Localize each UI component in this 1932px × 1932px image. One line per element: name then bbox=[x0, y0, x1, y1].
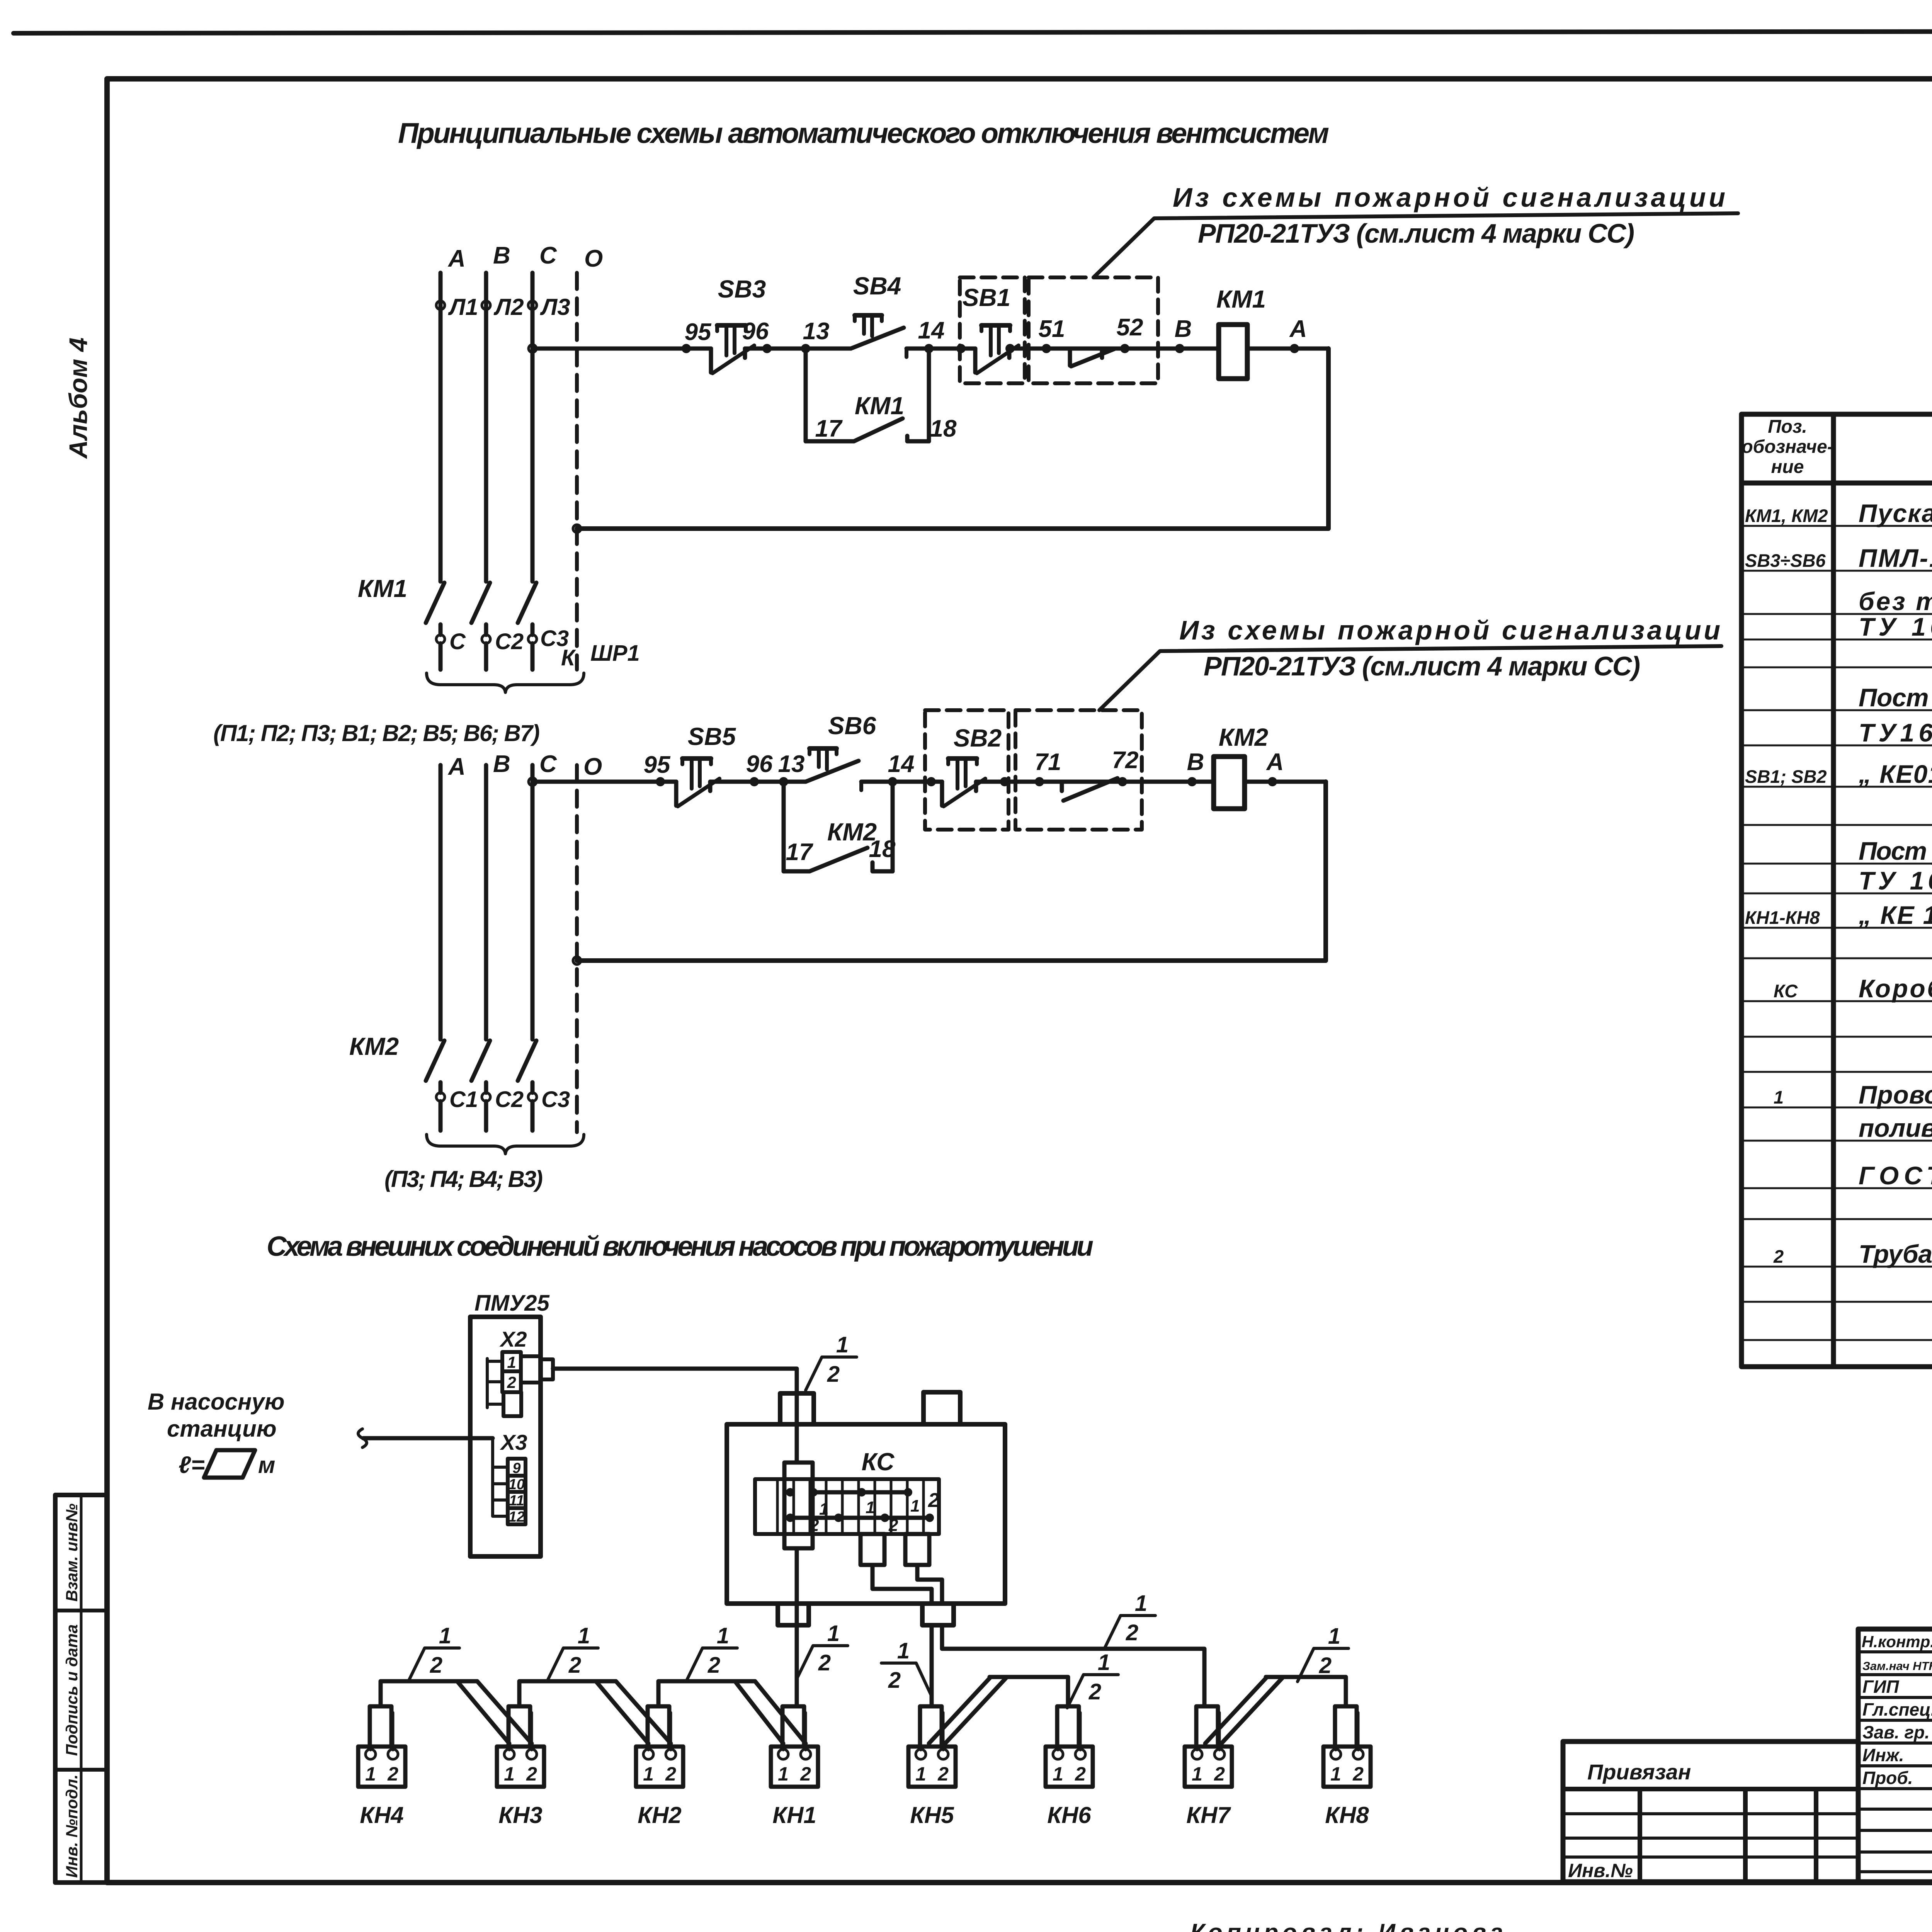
svg-text:КМ1, КМ2: КМ1, КМ2 bbox=[1745, 505, 1828, 526]
length placeholder parallelogram bbox=[204, 1450, 255, 1478]
node 13 bbox=[779, 777, 788, 786]
KM1 pole A bbox=[426, 583, 444, 635]
svg-text:ГИП: ГИП bbox=[1862, 1677, 1899, 1697]
svg-text:SB4: SB4 bbox=[853, 272, 901, 300]
node at SB2 right bbox=[1000, 777, 1009, 786]
svg-text:2: 2 bbox=[507, 1373, 516, 1391]
svg-text:Коробка соединительная КС-: Коробка соединительная КС-10 bbox=[1859, 974, 1932, 1003]
svg-text:„ КЕ011 “, „исп. 2 “, „ К “,: „ КЕ011 “, „исп. 2 “, „ К “, „ стоп “ bbox=[1858, 760, 1932, 788]
svg-text:РП20-21ТУЗ (см.лист 4 марки СС: РП20-21ТУЗ (см.лист 4 марки СС) bbox=[1198, 218, 1634, 248]
svg-text:2: 2 bbox=[665, 1763, 676, 1785]
svg-text:К: К bbox=[561, 645, 576, 670]
svg-text:КН1-КН8: КН1-КН8 bbox=[1745, 907, 1820, 928]
box PMU25 bbox=[470, 1317, 541, 1556]
junction box KC bbox=[727, 1424, 1005, 1604]
svg-text:Х2: Х2 bbox=[499, 1327, 527, 1351]
svg-text:2: 2 bbox=[888, 1668, 901, 1693]
cable mark 1/2 (to KH5, mirrored) bbox=[881, 1663, 932, 1696]
svg-text:1: 1 bbox=[778, 1763, 789, 1785]
terminal Л1 bbox=[436, 301, 445, 310]
svg-text:О: О bbox=[584, 245, 603, 272]
terminal C2 (KM2) bbox=[482, 1093, 490, 1101]
wire break squiggle bbox=[358, 1429, 367, 1447]
pushbutton post КН1 bbox=[771, 1706, 818, 1828]
X3 comb bbox=[493, 1438, 508, 1516]
KM1 holding contact branch wires bbox=[806, 349, 929, 441]
svg-text:17: 17 bbox=[815, 415, 843, 442]
node at SB2 left bbox=[927, 777, 936, 786]
svg-text:РП20-21ТУЗ (см.лист 4 марки СС: РП20-21ТУЗ (см.лист 4 марки СС) bbox=[1204, 651, 1640, 681]
svg-text:КН3: КН3 bbox=[498, 1802, 543, 1828]
contactor coil KM2 bbox=[1214, 757, 1245, 809]
svg-text:КМ1: КМ1 bbox=[358, 575, 407, 602]
KM1 auxiliary contact 17-18 bbox=[806, 418, 929, 441]
svg-text:SВ1; SВ2: SВ1; SВ2 bbox=[1745, 766, 1827, 787]
KM1 pole B bbox=[471, 583, 490, 635]
svg-text:В: В bbox=[1187, 749, 1204, 776]
KM2 holding contact branch wires bbox=[784, 782, 893, 871]
KC top gland left bbox=[780, 1393, 814, 1424]
leader note: from fire alarm circuit 2 bbox=[1099, 646, 1721, 710]
svg-text:2: 2 bbox=[800, 1763, 811, 1785]
cable run from box at 927 bbox=[381, 1681, 532, 1743]
svg-text:2: 2 bbox=[937, 1763, 949, 1785]
node 96 bbox=[750, 777, 759, 786]
svg-text:С: С bbox=[539, 751, 557, 777]
terminal C1 (KM2) bbox=[436, 1093, 445, 1101]
svg-text:2: 2 bbox=[888, 1516, 898, 1535]
svg-text:1: 1 bbox=[1330, 1763, 1341, 1785]
svg-text:Поз.: Поз. bbox=[1768, 417, 1807, 437]
svg-text:18: 18 bbox=[930, 415, 957, 442]
svg-text:13: 13 bbox=[803, 318, 830, 345]
wire to coil 2 bbox=[1142, 780, 1192, 784]
svg-text:КН6: КН6 bbox=[1047, 1802, 1091, 1828]
svg-text:без теплового реле: без теплового реле bbox=[1859, 587, 1932, 616]
sheet top edge line bbox=[14, 31, 1932, 33]
svg-text:2: 2 bbox=[1214, 1763, 1225, 1785]
cable run from box at 3066 bbox=[1205, 1677, 1346, 1743]
wire KC to KH7 bbox=[942, 1625, 1204, 1706]
strip bottom stub left bbox=[861, 1534, 884, 1565]
svg-text:Провод с алюминиевыми жилам: Провод с алюминиевыми жилами с bbox=[1859, 1080, 1932, 1109]
svg-text:1: 1 bbox=[910, 1497, 920, 1515]
terminal C3 (KM1) bbox=[528, 635, 537, 643]
cable mark 1/2 (PMU25-KC) bbox=[806, 1332, 857, 1390]
svg-text:2: 2 bbox=[928, 1489, 939, 1512]
phase bus C (circuit 1) bbox=[531, 273, 535, 349]
node 14 bbox=[888, 777, 897, 786]
svg-text:КН8: КН8 bbox=[1325, 1802, 1369, 1828]
cable mark 1/2 (KH5-KH6) bbox=[1067, 1650, 1118, 1708]
phase bus C (circuit 2) bbox=[531, 765, 535, 1039]
svg-text:С: С bbox=[449, 629, 466, 654]
svg-text:А: А bbox=[447, 245, 466, 272]
NC contact 51-52 bbox=[1046, 349, 1125, 366]
svg-text:1: 1 bbox=[1774, 1087, 1784, 1107]
neutral bus O dashed (circuit 2) bbox=[575, 765, 579, 1132]
junction at C bbox=[529, 778, 536, 786]
node A2 bbox=[1268, 777, 1277, 786]
svg-text:поливинилхлоридной изоляцией: поливинилхлоридной изоляцией bbox=[1859, 1114, 1932, 1142]
svg-text:Из схемы пожарной сигнализа: Из схемы пожарной сигнализации bbox=[1173, 182, 1725, 213]
svg-text:КМ2: КМ2 bbox=[349, 1032, 399, 1060]
svg-text:ПМЛ-112002 с катушкой на: ПМЛ-112002 с катушкой на 220В bbox=[1859, 544, 1932, 572]
cable run from box at 2351 bbox=[929, 1677, 1068, 1743]
svg-text:1: 1 bbox=[365, 1763, 376, 1785]
svg-text:С3: С3 bbox=[541, 1087, 570, 1112]
cable run from box at 1286 bbox=[519, 1681, 671, 1743]
brace group 2 bbox=[427, 1134, 584, 1154]
neutral bus O dashed (circuit 1) bbox=[575, 273, 579, 670]
X2 plug output bbox=[521, 1356, 541, 1383]
svg-text:Копировал: Иванова: Копировал: Иванова bbox=[1190, 1919, 1503, 1932]
wire PMU25 to KC bbox=[553, 1369, 797, 1463]
KC bottom gland right bbox=[922, 1604, 954, 1625]
svg-text:ТУ 16 - 526. 333 - 83: ТУ 16 - 526. 333 - 83 bbox=[1859, 866, 1932, 895]
node B2 bbox=[1187, 777, 1197, 786]
svg-text:Труба винипластовая ТЧ6-05-1: Труба винипластовая ТЧ6-05-1573-77 bbox=[1859, 1240, 1932, 1268]
svg-text:14: 14 bbox=[888, 751, 915, 777]
KM2 pole B bbox=[471, 1041, 490, 1093]
KM2 pole C bbox=[518, 1041, 536, 1093]
svg-text:В: В bbox=[493, 242, 510, 269]
svg-text:2: 2 bbox=[1075, 1763, 1086, 1785]
svg-text:13: 13 bbox=[778, 751, 805, 777]
svg-text:Л1: Л1 bbox=[448, 294, 478, 320]
junction on O bus bbox=[573, 525, 581, 532]
svg-text:SB2: SB2 bbox=[954, 724, 1002, 752]
node B1 bbox=[1175, 344, 1184, 353]
svg-text:ТУ 16-644. 001- 83: ТУ 16-644. 001- 83 bbox=[1859, 612, 1932, 641]
return wire circuit 1 bbox=[577, 349, 1328, 529]
svg-text:А: А bbox=[447, 753, 466, 780]
KC top gland right bbox=[923, 1392, 960, 1424]
svg-text:1: 1 bbox=[897, 1638, 910, 1663]
node 14 bbox=[924, 344, 934, 353]
svg-text:КС: КС bbox=[862, 1448, 895, 1476]
cable mark 1/2 (to KH1) bbox=[797, 1621, 848, 1679]
svg-text:Схема внешних соединений: Схема внешних соединений включения насос… bbox=[267, 1231, 1094, 1262]
phase bus A (circuit 1) bbox=[439, 273, 443, 582]
node A1 bbox=[1290, 344, 1299, 353]
svg-text:SВ3÷SВ6: SВ3÷SВ6 bbox=[1745, 550, 1826, 571]
junction at C bbox=[529, 345, 536, 352]
terminal C3 (KM2) bbox=[528, 1093, 537, 1101]
svg-text:Пост управления ПКУ 15-21.: Пост управления ПКУ 15-21. 111- 40У3 bbox=[1859, 837, 1932, 865]
KM1 pole C bbox=[518, 583, 536, 635]
node 72 bbox=[1118, 777, 1127, 786]
svg-text:95: 95 bbox=[644, 752, 671, 778]
svg-text:КН2: КН2 bbox=[638, 1802, 682, 1828]
svg-text:Пост управления ПКУ15-21.11: Пост управления ПКУ15-21.111-40У3 bbox=[1859, 683, 1932, 712]
terminal Л3 bbox=[528, 301, 537, 310]
svg-text:Инж.: Инж. bbox=[1862, 1745, 1904, 1765]
terminal C (KM1) bbox=[436, 635, 445, 643]
svg-text:17: 17 bbox=[786, 839, 813, 866]
svg-text:В: В bbox=[493, 751, 510, 777]
node 13 bbox=[801, 344, 810, 353]
contactor coil KM1 bbox=[1219, 325, 1247, 379]
cable mark 1/2 bbox=[408, 1623, 459, 1681]
phase bus A (circuit 2) bbox=[439, 765, 443, 1039]
svg-text:Пускатель электромагнитны: Пускатель электромагнитный bbox=[1859, 499, 1932, 527]
svg-text:71: 71 bbox=[1035, 749, 1061, 776]
dashed box SB2 bbox=[925, 710, 1009, 830]
strip bottom stub right bbox=[905, 1534, 929, 1565]
svg-text:Инв. №подл.: Инв. №подл. bbox=[63, 1774, 81, 1878]
svg-text:1: 1 bbox=[866, 1498, 875, 1517]
svg-text:(П1; П2; П3; В1; В2; В5; В6; В: (П1; П2; П3; В1; В2; В5; В6; В7) bbox=[213, 720, 540, 746]
pushbutton post КН3 bbox=[497, 1706, 544, 1828]
terminal C2 (KM1) bbox=[482, 635, 490, 643]
incoming cable connector in KC bbox=[784, 1463, 813, 1548]
KM2 auxiliary contact 17-18 bbox=[784, 848, 893, 871]
strip jumper row 2 bbox=[790, 1516, 930, 1520]
svg-text:м: м bbox=[258, 1452, 275, 1478]
X2 comb bbox=[487, 1359, 503, 1408]
KC bottom gland left bbox=[778, 1604, 809, 1625]
control rung 1 wire bbox=[532, 347, 1328, 351]
svg-text:95: 95 bbox=[685, 319, 712, 345]
wire to pump station bbox=[363, 1436, 493, 1440]
node 52 bbox=[1120, 344, 1129, 353]
svg-text:2: 2 bbox=[1773, 1246, 1784, 1267]
pushbutton post КН8 bbox=[1323, 1706, 1371, 1828]
dashed box from fire alarm bbox=[1029, 277, 1158, 383]
svg-text:С2: С2 bbox=[495, 1087, 524, 1112]
left margin stamp table bbox=[55, 1495, 107, 1883]
svg-text:2: 2 bbox=[526, 1763, 537, 1785]
node 95 bbox=[656, 777, 665, 786]
pushbutton SB1 (NC in fire-alarm box) bbox=[975, 325, 1019, 373]
pushbutton post КН4 bbox=[358, 1706, 405, 1828]
svg-text:Подпись и дата: Подпись и дата bbox=[63, 1624, 81, 1756]
svg-text:КН7: КН7 bbox=[1186, 1802, 1231, 1828]
pushbutton SB2 (NC in fire-alarm box) bbox=[942, 759, 985, 806]
dashed box from fire alarm 2 bbox=[1015, 710, 1142, 830]
svg-text:2: 2 bbox=[387, 1763, 398, 1785]
KM2 pole A bbox=[426, 1041, 444, 1093]
svg-text:Инв.№: Инв.№ bbox=[1568, 1860, 1633, 1881]
svg-text:96: 96 bbox=[746, 751, 773, 777]
svg-text:Проб.: Проб. bbox=[1862, 1768, 1913, 1788]
pushbutton post КН5 bbox=[908, 1706, 956, 1828]
svg-text:О: О bbox=[583, 753, 602, 780]
svg-text:станцию: станцию bbox=[167, 1416, 277, 1442]
svg-text:1: 1 bbox=[643, 1763, 654, 1785]
wire KC to KH5 bbox=[930, 1625, 934, 1706]
junction on O bus 2 bbox=[573, 957, 581, 964]
KC terminal strip bbox=[755, 1479, 939, 1534]
svg-text:ТУ16 - 526. 333-83: ТУ16 - 526. 333-83 bbox=[1859, 718, 1932, 747]
svg-text:72: 72 bbox=[1112, 747, 1139, 774]
control rung 2 wire bbox=[532, 780, 1326, 784]
dashed box SB1 bbox=[960, 277, 1025, 383]
svg-text:ние: ние bbox=[1771, 457, 1804, 477]
svg-text:А: А bbox=[1289, 316, 1307, 342]
leader note: from fire alarm circuit 1 bbox=[1094, 213, 1738, 277]
svg-text:52: 52 bbox=[1117, 314, 1143, 341]
svg-text:ℓ=: ℓ= bbox=[179, 1452, 205, 1478]
svg-text:С2: С2 bbox=[495, 629, 524, 654]
cable mark 1/2 (KH7-KH8) bbox=[1298, 1624, 1349, 1682]
svg-text:SB1: SB1 bbox=[963, 284, 1011, 311]
svg-text:ГОСТ 6323-79 АПВ-1×2: ГОСТ 6323-79 АПВ-1×2 bbox=[1859, 1161, 1932, 1190]
svg-text:В насосную: В насосную bbox=[148, 1389, 285, 1415]
svg-text:КМ2: КМ2 bbox=[1219, 723, 1268, 751]
wire to coil bbox=[1158, 347, 1180, 351]
node 95 bbox=[682, 344, 691, 353]
svg-text:(П3; П4; В4; В3): (П3; П4; В4; В3) bbox=[384, 1166, 543, 1192]
svg-text:Взам. инв№: Взам. инв№ bbox=[63, 1503, 81, 1602]
svg-text:2: 2 bbox=[809, 1516, 819, 1535]
NC contact 71-72 bbox=[1039, 778, 1122, 801]
pushbutton post КН2 bbox=[636, 1706, 683, 1828]
svg-text:ШР1: ШР1 bbox=[590, 641, 640, 666]
svg-text:14: 14 bbox=[918, 317, 945, 344]
svg-text:КН4: КН4 bbox=[360, 1802, 404, 1828]
svg-text:С: С bbox=[539, 242, 557, 269]
wire through KC to KH1 bbox=[795, 1548, 799, 1706]
svg-text:Зам.нач НТК: Зам.нач НТК bbox=[1862, 1659, 1932, 1673]
svg-text:Н.контр.: Н.контр. bbox=[1862, 1633, 1932, 1651]
svg-text:Альбом 4: Альбом 4 bbox=[64, 338, 92, 459]
svg-text:Зав. гр.: Зав. гр. bbox=[1862, 1722, 1930, 1742]
terminal Л2 bbox=[482, 301, 490, 310]
svg-text:Привязан: Привязан bbox=[1587, 1760, 1691, 1784]
svg-text:1: 1 bbox=[1053, 1763, 1063, 1785]
svg-text:КМ1: КМ1 bbox=[1216, 285, 1266, 313]
svg-text:SB5: SB5 bbox=[688, 723, 736, 750]
KC internal jog wires bbox=[872, 1565, 942, 1604]
svg-text:SB3: SB3 bbox=[718, 275, 766, 303]
svg-text:Л3: Л3 bbox=[540, 294, 570, 320]
node 71 bbox=[1035, 777, 1044, 786]
svg-text:КС: КС bbox=[1774, 981, 1798, 1001]
svg-text:SB6: SB6 bbox=[828, 712, 876, 740]
svg-text:ПМУ25: ПМУ25 bbox=[474, 1291, 550, 1316]
svg-text:КН5: КН5 bbox=[910, 1802, 954, 1828]
svg-text:1: 1 bbox=[915, 1763, 926, 1785]
svg-text:1: 1 bbox=[1192, 1763, 1202, 1785]
node 51 bbox=[1042, 344, 1051, 353]
brace group 1 bbox=[427, 673, 584, 692]
svg-text:Гл.спец.: Гл.спец. bbox=[1862, 1699, 1932, 1719]
return wire circuit 2 bbox=[577, 782, 1326, 961]
svg-text:Л2: Л2 bbox=[493, 294, 524, 320]
svg-text:обозначе-: обозначе- bbox=[1742, 437, 1833, 457]
cable mark 1/2 bbox=[686, 1623, 737, 1681]
svg-text:А: А bbox=[1266, 749, 1284, 776]
svg-text:С1: С1 bbox=[449, 1087, 478, 1112]
svg-text:51: 51 bbox=[1039, 316, 1065, 342]
privyazan block bbox=[1563, 1742, 1858, 1882]
svg-text:2: 2 bbox=[1352, 1763, 1364, 1785]
pushbutton post КН7 bbox=[1185, 1706, 1232, 1828]
svg-text:18: 18 bbox=[869, 836, 896, 862]
svg-text:Из схемы пожарной сигнализа: Из схемы пожарной сигнализации bbox=[1179, 615, 1720, 645]
svg-text:12: 12 bbox=[509, 1509, 525, 1525]
strip jumper row 1 bbox=[813, 1490, 908, 1495]
svg-text:В: В bbox=[1175, 316, 1192, 342]
cable run from box at 1646 bbox=[658, 1681, 806, 1743]
svg-text:КМ1: КМ1 bbox=[855, 392, 904, 420]
svg-text:1: 1 bbox=[507, 1353, 516, 1371]
pushbutton post КН6 bbox=[1046, 1706, 1093, 1828]
svg-text:1: 1 bbox=[504, 1763, 515, 1785]
phase bus B (circuit 2) bbox=[484, 765, 488, 1039]
svg-text:„ КЕ 131“, „ исп. 2“, „ Ч“ , „: „ КЕ 131“, „ исп. 2“, „ Ч“ , „ пуск“ bbox=[1858, 901, 1932, 929]
svg-text:Принципиальные схемы автомат: Принципиальные схемы автоматического отк… bbox=[398, 117, 1329, 149]
cable mark 1/2 bbox=[547, 1623, 598, 1681]
svg-text:КН1: КН1 bbox=[772, 1802, 816, 1828]
phase bus B (circuit 1) bbox=[484, 273, 488, 582]
cable mark 1/2 (to KH7) bbox=[1104, 1591, 1155, 1649]
node 96 bbox=[762, 344, 772, 353]
svg-text:Х3: Х3 bbox=[500, 1430, 527, 1454]
svg-text:96: 96 bbox=[742, 318, 769, 345]
title block names grid bbox=[1858, 1629, 1932, 1882]
